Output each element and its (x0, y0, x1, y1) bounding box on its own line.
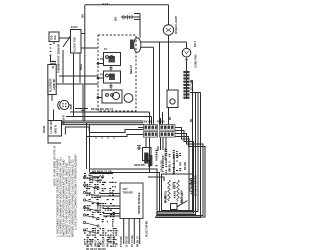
svg-text:WH BK: WH BK (169, 164, 172, 172)
svg-text:OVEN: OVEN (173, 182, 176, 189)
svg-text:LF RD OR: LF RD OR (126, 236, 128, 247)
svg-text:TOP BK: TOP BK (88, 238, 90, 247)
svg-text:BROIL IGN: BROIL IGN (181, 190, 184, 203)
svg-text:WH SW: WH SW (108, 238, 110, 247)
svg-text:SW BK: SW BK (149, 158, 152, 167)
svg-text:L1 BK 120V: L1 BK 120V (50, 119, 53, 133)
svg-text:60HZ N: 60HZ N (55, 125, 58, 134)
svg-text:P TOP BK: P TOP BK (121, 236, 123, 247)
svg-text:BK BU WH RD GY: BK BU WH RD GY (91, 107, 113, 111)
svg-text:WH: WH (139, 146, 141, 150)
svg-text:BK: BK (191, 118, 193, 122)
svg-text:RELAY: RELAY (129, 65, 133, 74)
svg-text:RD BU: RD BU (157, 121, 165, 124)
svg-text:BK/R WH: BK/R WH (134, 163, 146, 167)
svg-text:WH: WH (158, 146, 160, 150)
svg-text:GY OR BK: GY OR BK (92, 176, 105, 179)
svg-text:ELEC: ELEC (71, 25, 78, 29)
svg-text:PLUG: PLUG (100, 240, 102, 247)
svg-text:TOP OR: TOP OR (104, 238, 106, 247)
svg-text:CLK: CLK (55, 35, 57, 40)
svg-text:OR SW: OR SW (111, 235, 113, 244)
svg-text:THERMOSTAT SENSOR: THERMOSTAT SENSOR (57, 44, 61, 73)
svg-text:CONV FAN: CONV FAN (194, 54, 198, 68)
svg-text:BK-7: BK-7 (193, 40, 197, 47)
svg-text:FROM: FROM (43, 126, 46, 133)
svg-text:RD: RD (177, 154, 180, 158)
svg-text:TOD: TOD (51, 35, 54, 40)
svg-text:TRIG/SP: TRIG/SP (123, 191, 134, 195)
svg-text:BK WH: BK WH (144, 121, 152, 124)
svg-text:RR BK GY: RR BK GY (137, 235, 139, 247)
svg-text:P2 CONN: P2 CONN (192, 79, 194, 90)
svg-text:VALVE: VALVE (91, 239, 94, 247)
svg-text:BK RD GY WH OR: BK RD GY WH OR (195, 175, 198, 196)
svg-text:BK WH: BK WH (114, 236, 116, 244)
svg-text:GAS VALVE: GAS VALVE (190, 178, 193, 192)
svg-text:BAKE WH: BAKE WH (165, 148, 168, 160)
svg-text:BU: BU (114, 17, 118, 21)
svg-text:BK W R: BK W R (63, 115, 66, 124)
svg-text:BK/R: BK/R (80, 64, 83, 70)
svg-text:PLUG TOP BK: PLUG TOP BK (146, 220, 149, 237)
svg-text:LAMP BK: LAMP BK (53, 78, 56, 90)
svg-text:CLOCK TOD: CLOCK TOD (74, 37, 77, 52)
svg-text:SW GY: SW GY (96, 239, 98, 247)
svg-text:OVEN LAMP: OVEN LAMP (174, 16, 178, 34)
svg-text:SJ-8: SJ-8 (102, 2, 109, 6)
svg-text:SPARK MODULE: SPARK MODULE (137, 192, 141, 214)
svg-text:24/7: 24/7 (123, 187, 129, 191)
svg-text:WH BK/R GY OR: WH BK/R GY OR (92, 170, 112, 173)
svg-text:RT GY WH: RT GY WH (132, 235, 134, 247)
svg-text:BU: BU (170, 116, 172, 120)
svg-text:OR GY BK: OR GY BK (161, 160, 164, 172)
svg-text:5. USE COPPER CONDUCTORS ONLY: 5. USE COPPER CONDUCTORS ONLY FOR REPLAC… (73, 154, 77, 230)
svg-text:BK WH: BK WH (184, 162, 187, 170)
svg-text:BAKE IGN: BAKE IGN (165, 191, 168, 203)
